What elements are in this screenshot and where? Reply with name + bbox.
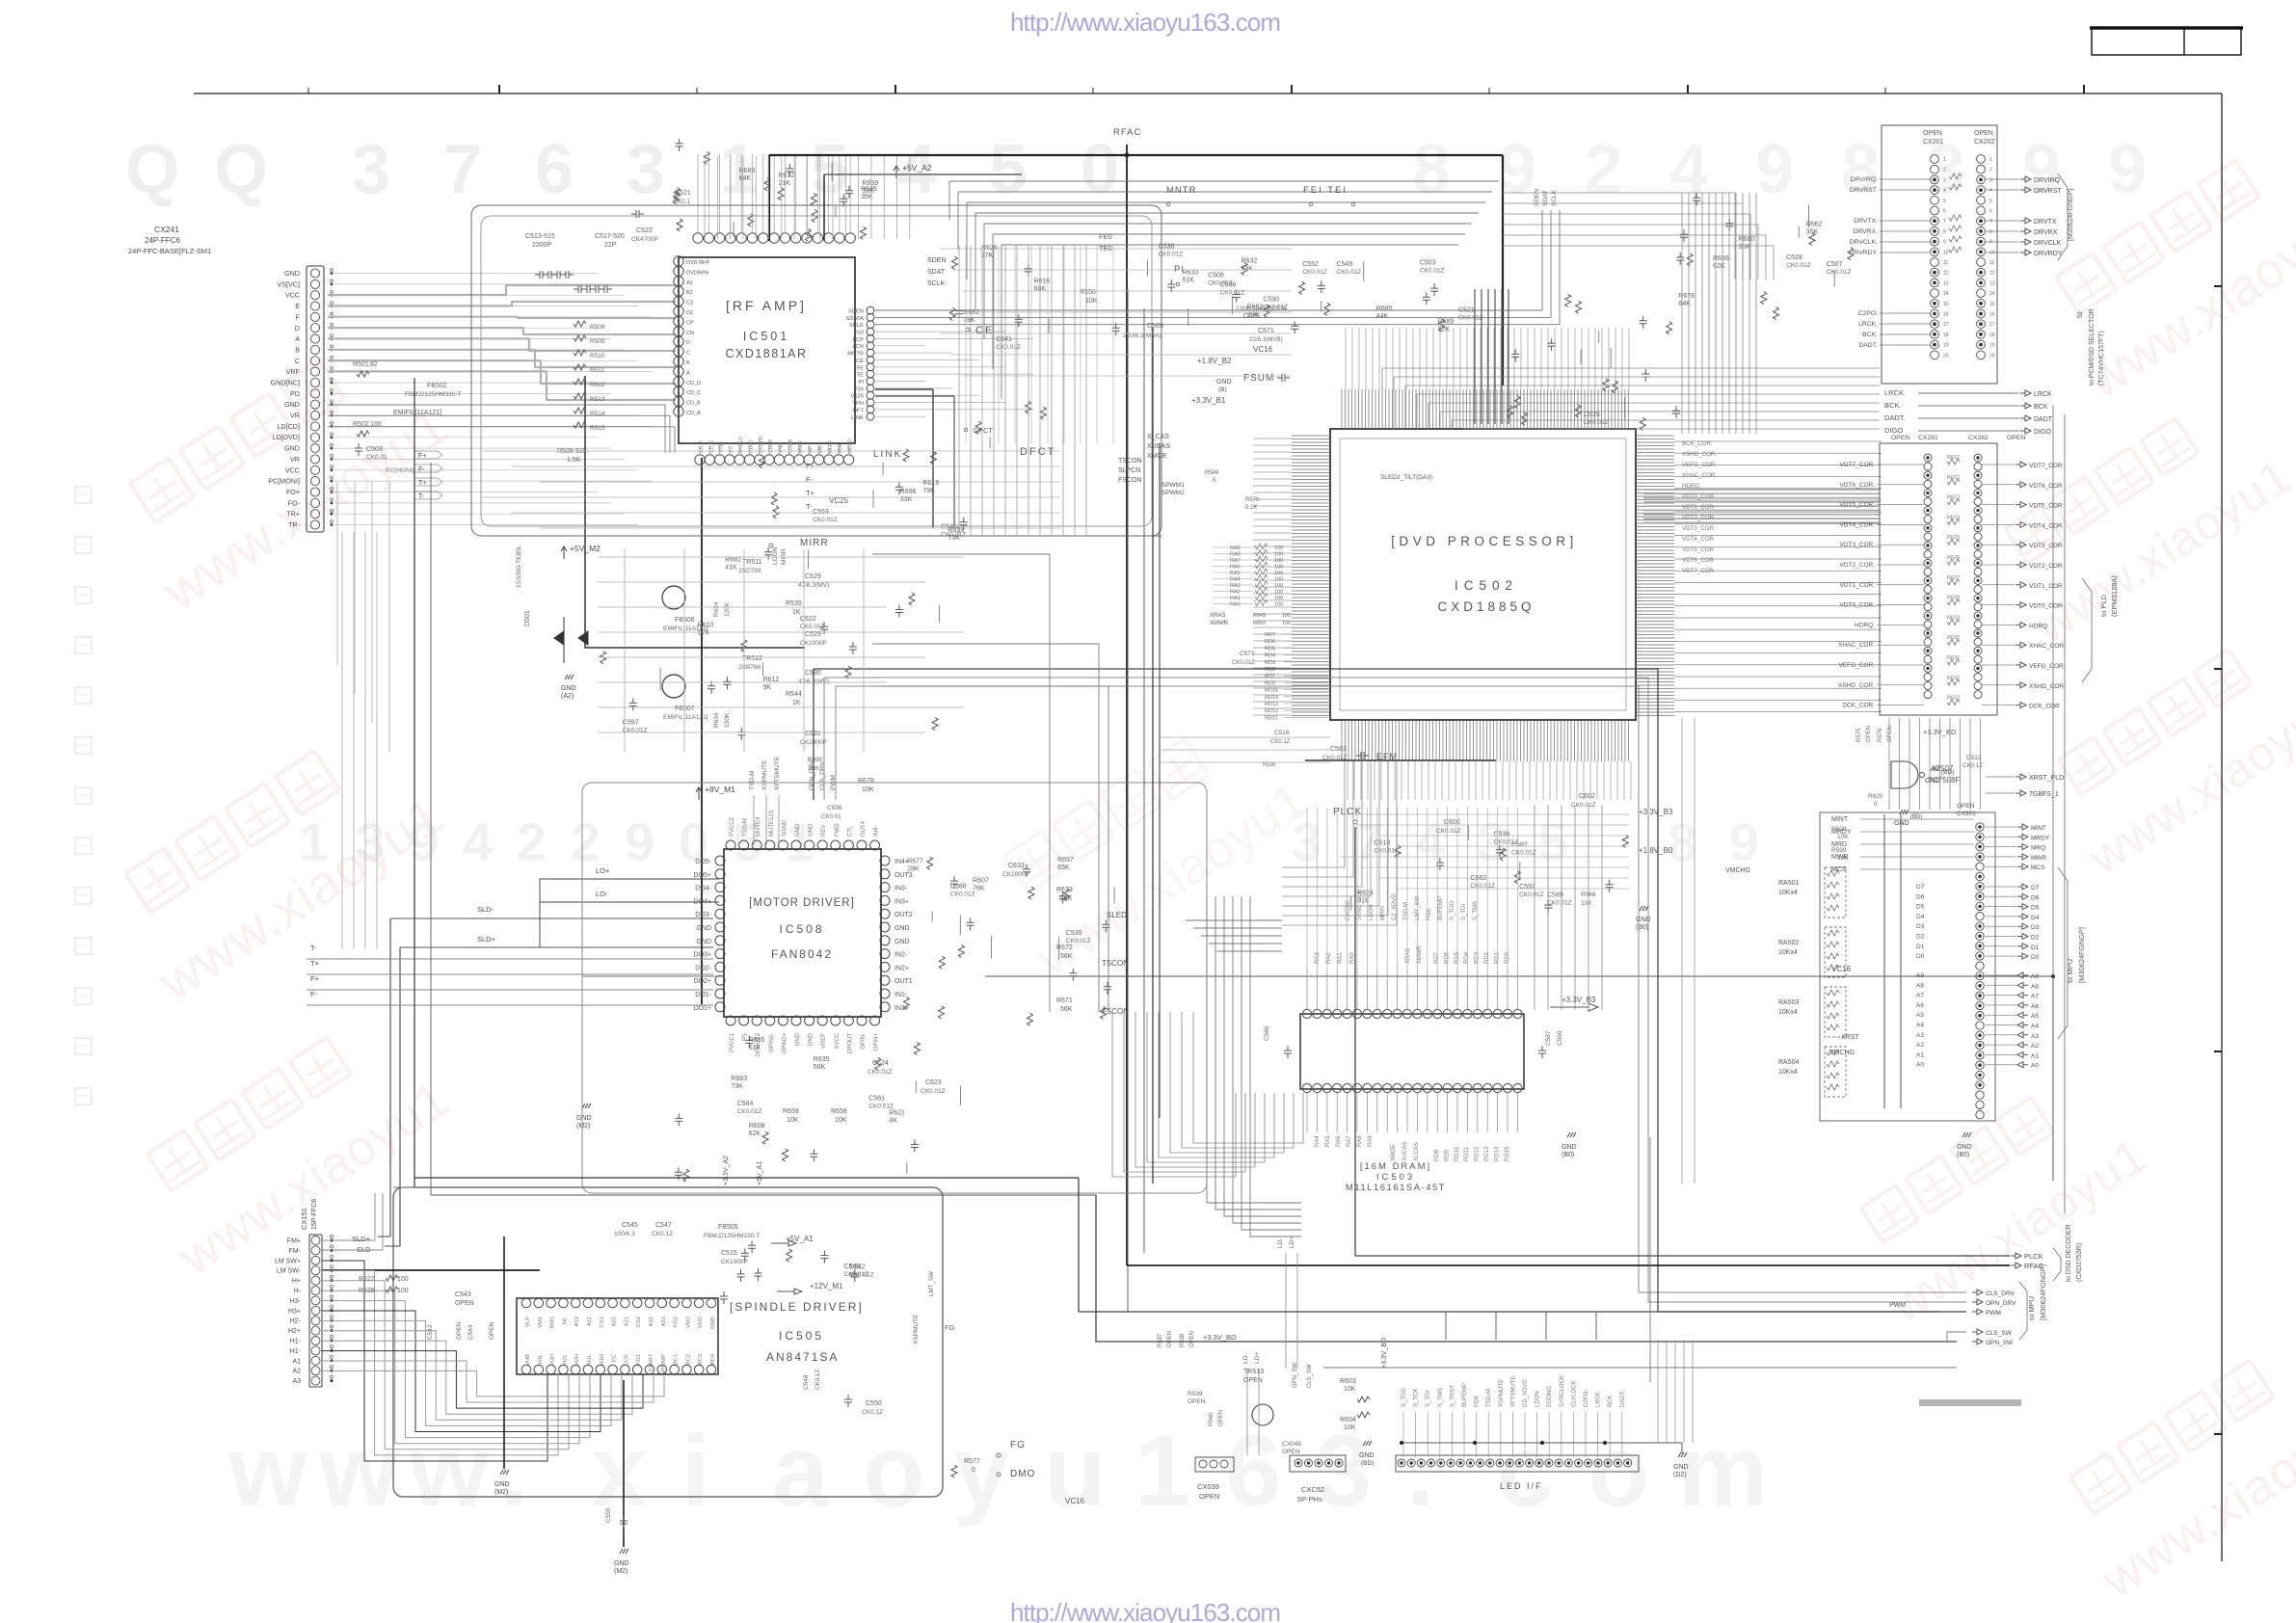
svg-text:RA1: RA1 <box>1338 952 1344 964</box>
svg-text:H+: H+ <box>292 1278 301 1285</box>
svg-text:47/6.3(MV): 47/6.3(MV) <box>798 582 829 589</box>
svg-text:D0: D0 <box>1916 953 1925 960</box>
svg-text:DO1+: DO1+ <box>694 1005 711 1012</box>
svg-text:VEFG_COR: VEFG_COR <box>2029 663 2064 670</box>
svg-text:ECR: ECR <box>624 1354 629 1366</box>
svg-text:61K: 61K <box>749 1045 761 1051</box>
svg-text:RA503: RA503 <box>1778 999 1800 1006</box>
svg-text:RA5: RA5 <box>1230 571 1241 576</box>
svg-text:CK0.01Z: CK0.01Z <box>1232 660 1255 666</box>
svg-text:C542: C542 <box>849 1264 866 1271</box>
svg-text:R629: R629 <box>1947 615 1960 621</box>
svg-text:14: 14 <box>1989 291 1995 297</box>
svg-text:R678: R678 <box>858 778 874 785</box>
svg-text:120K: 120K <box>724 601 731 617</box>
svg-text:C547: C547 <box>655 1222 672 1229</box>
svg-text:VDT2_COR: VDT2_COR <box>1682 515 1715 521</box>
svg-text:R627: R627 <box>1947 575 1960 581</box>
svg-text:DRVRX: DRVRX <box>2034 229 2058 236</box>
svg-text:R575: R575 <box>1856 728 1862 742</box>
svg-text:DO5-: DO5- <box>695 859 711 865</box>
svg-text:17: 17 <box>1943 322 1949 328</box>
svg-text:CK0.01Z: CK0.01Z <box>1519 891 1544 898</box>
svg-text:H3-: H3- <box>290 1298 302 1305</box>
svg-text:XMOE: XMOE <box>1391 1144 1397 1161</box>
svg-text:w: w <box>318 1415 398 1528</box>
svg-text:R659: R659 <box>862 180 878 187</box>
svg-text:A8: A8 <box>2031 983 2039 990</box>
svg-text:R508: R508 <box>590 324 605 331</box>
svg-text:R652: R652 <box>1247 305 1264 311</box>
svg-text:A12: A12 <box>574 1317 580 1326</box>
svg-text:OPEN: OPEN <box>1188 1398 1206 1405</box>
svg-text:1K: 1K <box>792 700 801 706</box>
svg-text:T+: T+ <box>310 959 320 968</box>
svg-text:TE0: TE0 <box>1099 244 1112 253</box>
svg-text:VDT6_COR: VDT6_COR <box>1682 557 1715 564</box>
svg-text:F+: F+ <box>310 974 320 983</box>
svg-text:VR: VR <box>290 412 300 420</box>
svg-text:H-: H- <box>294 1289 302 1295</box>
svg-text:RA5: RA5 <box>1325 1135 1331 1147</box>
svg-text:100: 100 <box>1274 602 1283 608</box>
svg-text:EMIFIL[11A121]: EMIFIL[11A121] <box>393 410 441 416</box>
svg-text:OPEN: OPEN <box>456 1321 463 1340</box>
svg-text:27K: 27K <box>981 253 994 259</box>
svg-text:V125: V125 <box>850 394 864 400</box>
svg-text:T-: T- <box>310 944 317 952</box>
svg-text:XRST: XRST <box>1841 1034 1859 1041</box>
svg-text:8: 8 <box>1668 811 1697 872</box>
svg-text:6: 6 <box>535 131 574 208</box>
svg-text:A4: A4 <box>1916 1023 1924 1029</box>
svg-text:FBMJ2125HM330-T: FBMJ2125HM330-T <box>405 391 462 398</box>
svg-text:DRVTX: DRVTX <box>2034 219 2057 226</box>
svg-text:R632: R632 <box>1241 257 1258 264</box>
svg-text:LOON: LOON <box>772 546 779 565</box>
svg-text:TSD-M: TSD-M <box>743 818 749 837</box>
svg-text:R659: R659 <box>783 1108 799 1115</box>
svg-text:R619: R619 <box>922 480 939 487</box>
svg-text:GND: GND <box>494 1481 510 1488</box>
svg-text:IN3+: IN3+ <box>894 898 909 905</box>
svg-text:RD15: RD15 <box>1265 688 1278 694</box>
svg-text:R622: R622 <box>1947 475 1960 481</box>
svg-text:D2: D2 <box>1916 934 1925 941</box>
svg-text:PS: PS <box>743 1033 749 1041</box>
svg-text:D3: D3 <box>2031 924 2040 931</box>
svg-text:B: B <box>295 345 300 354</box>
svg-text:XFTSMUTE: XFTSMUTE <box>1510 1376 1516 1407</box>
svg-text:MNTR: MNTR <box>1166 185 1196 196</box>
svg-text:GND: GND <box>696 939 711 945</box>
svg-text:FE: FE <box>857 365 865 371</box>
svg-text:MRDY: MRDY <box>2031 835 2050 841</box>
svg-text:IN4-: IN4- <box>874 826 880 837</box>
svg-text:100: 100 <box>397 1276 409 1283</box>
svg-text:RFAC: RFAC <box>1113 127 1141 138</box>
svg-text:R632: R632 <box>1947 676 1960 681</box>
svg-text:CK0.01Z: CK0.01Z <box>849 1272 874 1279</box>
svg-text:F+: F+ <box>806 462 815 470</box>
svg-text:+5V_A1: +5V_A1 <box>786 1235 814 1243</box>
svg-text:28K: 28K <box>907 865 920 872</box>
svg-text:2: 2 <box>517 811 547 872</box>
svg-text:OPEN: OPEN <box>1887 726 1893 742</box>
svg-text:RD2: RD2 <box>1265 667 1275 673</box>
svg-text:DO5+: DO5+ <box>694 872 711 879</box>
svg-text:XRAS: XRAS <box>1210 613 1225 619</box>
svg-text:CX039: CX039 <box>1197 1482 1219 1491</box>
svg-text:D1: D1 <box>1916 944 1925 950</box>
svg-text:SLED2_TILT(DA3): SLED2_TILT(DA3) <box>1380 474 1432 481</box>
svg-text:IN2-: IN2- <box>894 952 908 959</box>
svg-text:A8: A8 <box>1916 982 1924 989</box>
svg-text:FE0: FE0 <box>1099 232 1112 241</box>
svg-text:100: 100 <box>1274 583 1283 589</box>
svg-text:LM SW-: LM SW- <box>277 1268 302 1275</box>
svg-text:17K: 17K <box>698 629 710 636</box>
svg-text:1: 1 <box>1135 1415 1190 1528</box>
svg-text:D2: D2 <box>2031 935 2040 942</box>
svg-text:R690: R690 <box>808 757 823 763</box>
svg-text:u: u <box>1044 1415 1106 1528</box>
svg-text:OUT2: OUT2 <box>894 912 913 918</box>
svg-text:A1: A1 <box>2031 1052 2039 1059</box>
svg-text:DADT.: DADT. <box>1884 413 1906 422</box>
svg-text:D4: D4 <box>2031 915 2040 921</box>
svg-text:CK0.01Z: CK0.01Z <box>737 1108 762 1115</box>
svg-text:C540: C540 <box>941 523 957 530</box>
svg-text:C590: C590 <box>1263 297 1279 304</box>
svg-text:XLCAS: XLCAS <box>1414 1142 1420 1161</box>
svg-text:CK0.01Z: CK0.01Z <box>868 1069 893 1076</box>
svg-text:CK0.01Z: CK0.01Z <box>1786 262 1811 269</box>
svg-text:CK0.01Z: CK0.01Z <box>813 517 838 523</box>
svg-text:C587: C587 <box>1545 1030 1552 1046</box>
svg-text:A2: A2 <box>686 280 693 286</box>
svg-text:100: 100 <box>1274 596 1283 601</box>
svg-text:51K: 51K <box>1183 278 1195 284</box>
svg-text:SLPCN: SLPCN <box>1118 467 1140 474</box>
svg-text:CE: CE <box>856 359 864 364</box>
svg-text:C538: C538 <box>1159 244 1175 251</box>
svg-text:RD9: RD9 <box>1444 1149 1450 1161</box>
svg-text:GND: GND <box>1894 820 1909 827</box>
svg-text:CXD1881AR: CXD1881AR <box>725 347 807 360</box>
svg-text:R556: R556 <box>1080 289 1096 296</box>
svg-text:H2L: H2L <box>562 1353 568 1364</box>
svg-text:CXD1885Q: CXD1885Q <box>1437 599 1535 614</box>
svg-text:C539: C539 <box>1066 930 1082 937</box>
svg-text:A9: A9 <box>2031 973 2039 980</box>
svg-text:A0: A0 <box>2031 1063 2039 1070</box>
svg-text:18: 18 <box>1943 333 1949 338</box>
svg-text:[DVD PROCESSOR]: [DVD PROCESSOR] <box>1391 534 1578 548</box>
svg-text:+3.3V_BD: +3.3V_BD <box>1203 1333 1237 1342</box>
svg-text:D5: D5 <box>1916 904 1925 911</box>
svg-text:TR512: TR512 <box>742 655 762 662</box>
svg-text:CK0.1Z: CK0.1Z <box>862 1409 883 1416</box>
svg-text:RA9: RA9 <box>1230 545 1241 551</box>
svg-text:OPEN: OPEN <box>1923 130 1942 137</box>
svg-text:CX301: CX301 <box>1957 811 1976 817</box>
svg-text:R672: R672 <box>1056 945 1073 951</box>
svg-text:RA1: RA1 <box>1230 596 1241 601</box>
svg-text:TSD-M: TSD-M <box>1403 902 1409 920</box>
svg-text:BCK: BCK <box>2034 404 2048 411</box>
svg-text:VDT5_COR: VDT5_COR <box>2029 503 2063 510</box>
svg-text:LMT_SW: LMT_SW <box>1415 896 1421 920</box>
svg-text:CX281: CX281 <box>1918 435 1938 441</box>
svg-text:R649: R649 <box>1253 613 1266 619</box>
svg-text:PVCC1: PVCC1 <box>730 1032 735 1052</box>
svg-text:R538: R538 <box>1180 1333 1186 1347</box>
svg-text:DO2+: DO2+ <box>694 978 711 985</box>
svg-text:RD1: RD1 <box>1265 674 1275 679</box>
svg-text:11: 11 <box>1989 260 1994 266</box>
svg-text:3: 3 <box>1989 177 1992 183</box>
svg-text:HDRG: HDRG <box>1682 483 1699 490</box>
svg-text:C503: C503 <box>1420 259 1436 266</box>
svg-text:FG2: FG2 <box>674 1317 680 1327</box>
svg-text:CLS_SW: CLS_SW <box>1986 1330 2013 1337</box>
svg-text:IC502: IC502 <box>1455 578 1518 593</box>
svg-text:OPEN: OPEN <box>489 1321 495 1340</box>
svg-text:R630: R630 <box>1947 635 1960 641</box>
svg-text:32K: 32K <box>1438 327 1451 333</box>
svg-text:TR-: TR- <box>288 520 301 529</box>
svg-text:VMCHG: VMCHG <box>1725 867 1750 874</box>
svg-text:VHB: VHB <box>525 1354 531 1366</box>
svg-text:VCC: VCC <box>285 466 300 474</box>
svg-text:9: 9 <box>2108 131 2147 208</box>
svg-text:BMS: BMS <box>550 1317 556 1329</box>
svg-text:RD4: RD4 <box>1265 653 1275 659</box>
svg-text:R549: R549 <box>1205 470 1219 476</box>
svg-text:RA9: RA9 <box>1368 1135 1374 1147</box>
svg-text:MWR: MWR <box>2031 855 2047 862</box>
svg-text:OFT: OFT <box>852 408 864 413</box>
svg-text:(B0): (B0) <box>1636 924 1648 931</box>
svg-text:EMIFIL[11A121]: EMIFIL[11A121] <box>663 714 708 721</box>
svg-text:R621: R621 <box>889 1110 905 1117</box>
svg-text:DMO: DMO <box>1010 1469 1035 1479</box>
svg-text:10Kx4: 10Kx4 <box>1778 1069 1798 1076</box>
svg-text:1.5K: 1.5K <box>567 457 581 464</box>
svg-text:BUFEMP: BUFEMP <box>1438 896 1444 920</box>
svg-text:CK0.01Z: CK0.01Z <box>1458 315 1483 322</box>
svg-text:R576: R576 <box>1878 728 1883 742</box>
svg-text:VDT3_COR: VDT3_COR <box>1682 525 1715 532</box>
svg-text:RD6: RD6 <box>1265 639 1275 645</box>
svg-text:+1.8V_B0: +1.8V_B0 <box>1639 846 1673 855</box>
svg-text:XHAC_COR.: XHAC_COR. <box>1838 642 1875 649</box>
svg-text:CXC52: CXC52 <box>1301 1485 1324 1494</box>
svg-text:SVCC: SVCC <box>835 1032 841 1049</box>
svg-text:DIGO: DIGO <box>1884 426 1903 435</box>
svg-text:2SD789: 2SD789 <box>738 568 761 574</box>
svg-text:RD11: RD11 <box>1464 1146 1470 1161</box>
svg-text:R544: R544 <box>786 691 802 698</box>
svg-text:LCP: LCP <box>853 337 864 343</box>
svg-text:H3H: H3H <box>550 1354 556 1366</box>
svg-text:GND: GND <box>809 1032 814 1046</box>
svg-text:41K: 41K <box>725 565 737 572</box>
svg-text:MCS: MCS <box>2031 865 2045 871</box>
svg-text:XMWR: XMWR <box>1417 945 1423 964</box>
svg-text:R677: R677 <box>907 858 923 865</box>
svg-text:LO-: LO- <box>596 890 608 898</box>
svg-text:24P-FFC-BASE[FLZ-SM1: 24P-FFC-BASE[FLZ-SM1 <box>128 247 211 255</box>
svg-text:to MPU: to MPU <box>2066 959 2074 983</box>
svg-text:IC501: IC501 <box>743 330 789 343</box>
svg-text:CD_C: CD_C <box>686 390 701 396</box>
svg-text:LDON: LDON <box>1369 904 1375 920</box>
svg-text:38K: 38K <box>963 317 975 324</box>
svg-text:8: 8 <box>1412 131 1451 208</box>
svg-text:LD-: LD- <box>1277 1238 1284 1248</box>
svg-text:C561: C561 <box>868 1096 885 1103</box>
svg-text:FG1: FG1 <box>636 1354 642 1365</box>
svg-text:RA8: RA8 <box>1357 1135 1363 1147</box>
svg-text:VDT0_COR: VDT0_COR <box>1682 493 1715 500</box>
svg-text:IN3-: IN3- <box>894 886 908 892</box>
svg-text:FG: FG <box>945 1323 955 1332</box>
svg-text:DCK_COR: DCK_COR <box>2029 704 2060 710</box>
svg-text:100: 100 <box>1274 558 1283 564</box>
svg-text:+3.3V_A2: +3.3V_A2 <box>723 1156 730 1185</box>
svg-text:VDT4_COR.: VDT4_COR. <box>1840 521 1876 528</box>
svg-text:CX151: CX151 <box>300 1208 308 1230</box>
svg-text:(TC74VHC157FT): (TC74VHC157FT) <box>2098 331 2105 386</box>
svg-text:OPEN: OPEN <box>1282 1449 1300 1455</box>
svg-text:DRVRDY: DRVRDY <box>2034 251 2063 257</box>
svg-text:SLD+: SLD+ <box>352 1235 371 1243</box>
svg-text:D7: D7 <box>1916 884 1925 891</box>
svg-text:OPN_SW: OPN_SW <box>1986 1340 2014 1346</box>
svg-text:C623: C623 <box>925 1079 942 1086</box>
svg-text:V33: V33 <box>854 331 864 336</box>
svg-text:(M2): (M2) <box>614 1568 627 1575</box>
svg-text:CK0.01Z: CK0.01Z <box>1322 755 1348 761</box>
svg-text:100: 100 <box>1274 577 1283 583</box>
svg-text:A4: A4 <box>2031 1024 2039 1030</box>
svg-text:VDT3_COR: VDT3_COR <box>2029 543 2063 549</box>
svg-text:PLCK: PLCK <box>2024 1252 2043 1261</box>
svg-text:VDT6_COR: VDT6_COR <box>2029 483 2063 490</box>
svg-text:EDONG: EDONG <box>1547 1386 1553 1407</box>
svg-text:OPEN: OPEN <box>1243 1377 1263 1384</box>
svg-text:[SPINDLE DRIVER]: [SPINDLE DRIVER] <box>730 1300 864 1314</box>
svg-text:S_TRST: S_TRST <box>1450 1385 1455 1407</box>
svg-text:LM SW+: LM SW+ <box>275 1258 301 1264</box>
svg-text:OPN_DRV: OPN_DRV <box>809 759 815 790</box>
svg-text:CLS_DRV: CLS_DRV <box>1986 1290 2016 1297</box>
svg-text:IC503: IC503 <box>1376 1172 1415 1183</box>
svg-text:FM-: FM- <box>289 1248 302 1255</box>
svg-text:VLP: VLP <box>525 1317 531 1327</box>
svg-text:A9: A9 <box>1916 972 1924 979</box>
svg-text:R683: R683 <box>731 1076 747 1082</box>
svg-text:VDT5_COR.: VDT5_COR. <box>1840 502 1876 509</box>
svg-text:0: 0 <box>1874 801 1878 808</box>
svg-text:VEFG_COR.: VEFG_COR. <box>1682 462 1717 468</box>
svg-text:XFTSMUTE: XFTSMUTE <box>774 756 781 790</box>
svg-text:R620: R620 <box>1868 793 1883 800</box>
svg-text:RA0: RA0 <box>1349 952 1355 964</box>
svg-text:1K: 1K <box>792 609 801 616</box>
svg-text:C552: C552 <box>1302 261 1319 268</box>
svg-text:D: D <box>295 324 300 333</box>
svg-text:DO3-: DO3- <box>695 912 711 918</box>
svg-text:OPEN: OPEN <box>1218 1410 1224 1426</box>
svg-text:0: 0 <box>1081 131 1119 208</box>
svg-text:C590: C590 <box>1557 1030 1563 1046</box>
svg-text:A2: A2 <box>2031 1043 2039 1050</box>
svg-text:SLD+: SLD+ <box>477 935 496 944</box>
svg-text:R577: R577 <box>964 1458 980 1465</box>
svg-text:OPIN2+: OPIN2+ <box>782 1033 788 1054</box>
svg-text:15: 15 <box>1943 302 1949 307</box>
svg-text:SLD-: SLD- <box>477 905 494 914</box>
svg-text:(CXD2753R): (CXD2753R) <box>2076 1243 2083 1282</box>
svg-text:http://www.xiaoyu163.com: http://www.xiaoyu163.com <box>1010 1598 1281 1623</box>
svg-text:OPEN: OPEN <box>455 1300 474 1307</box>
svg-text:[M30624FGNGP]: [M30624FGNGP] <box>2077 927 2086 983</box>
svg-text:C586: C586 <box>1264 1025 1270 1041</box>
svg-text:RD12: RD12 <box>1475 1146 1481 1161</box>
svg-text:+3.3V_B3: +3.3V_B3 <box>1562 996 1596 1004</box>
svg-text:TC7508F: TC7508F <box>1928 776 1960 785</box>
svg-text:R624: R624 <box>713 601 720 617</box>
svg-text:(B): (B) <box>1218 386 1227 393</box>
svg-text:C508: C508 <box>1208 272 1224 279</box>
svg-text:56K: 56K <box>1060 895 1073 902</box>
svg-text:C516: C516 <box>1274 730 1290 736</box>
svg-text:VDT7_COR: VDT7_COR <box>2029 463 2063 469</box>
svg-text:OUT4: OUT4 <box>861 820 867 837</box>
svg-text:OPIN+: OPIN+ <box>874 1033 880 1051</box>
svg-text:T+: T+ <box>806 489 815 497</box>
svg-text:VPUMP: VPUMP <box>661 1354 667 1374</box>
svg-text:2: 2 <box>1989 168 1992 173</box>
svg-text:C569: C569 <box>1147 323 1163 330</box>
svg-text:CX048: CX048 <box>1282 1441 1301 1448</box>
svg-text:CK0.1Z: CK0.1Z <box>814 1370 821 1390</box>
svg-text:CX241: CX241 <box>154 225 179 234</box>
svg-text:A3: A3 <box>2031 1033 2039 1040</box>
svg-text:(EPM3128A): (EPM3128A) <box>2110 575 2119 617</box>
svg-text:GND: GND <box>894 925 910 932</box>
svg-text:R509: R509 <box>1831 826 1847 833</box>
svg-text:A2: A2 <box>1916 1042 1924 1049</box>
svg-text:22P: 22P <box>604 242 617 249</box>
svg-text:VDD: VDD <box>698 1317 704 1328</box>
svg-text:BCK.: BCK. <box>1608 1394 1614 1407</box>
svg-text:9: 9 <box>625 811 654 872</box>
svg-text:[M30624FGNGP]: [M30624FGNGP] <box>2068 189 2074 241</box>
svg-text:SLED: SLED <box>1107 911 1127 919</box>
svg-text:C584: C584 <box>737 1101 754 1107</box>
svg-text:OUT3: OUT3 <box>894 872 913 879</box>
svg-text:DO4+: DO4+ <box>694 898 711 905</box>
svg-text:44K: 44K <box>1376 313 1389 320</box>
svg-text:A1: A1 <box>292 1358 301 1365</box>
svg-text:R537: R537 <box>1158 1333 1163 1347</box>
svg-text:10Kx4: 10Kx4 <box>1778 890 1798 896</box>
svg-text:http://www.xiaoyu163.com: http://www.xiaoyu163.com <box>1010 8 1281 37</box>
